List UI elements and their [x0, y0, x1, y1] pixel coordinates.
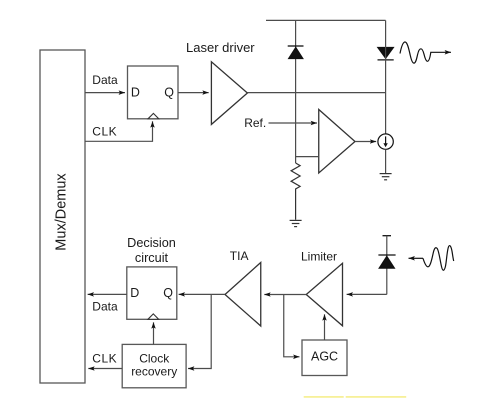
laser driver amplifier triangle — [211, 62, 247, 125]
decision circuit flip-flop FF2 — [127, 267, 177, 319]
wire Q output to laser driver — [178, 92, 209, 94]
wire right branch vertical — [385, 20, 387, 133]
svg-text:Data: Data — [92, 300, 118, 314]
wire CLK clock recovery to mux — [88, 368, 122, 370]
wire Data (mux to flip-flop) — [85, 92, 125, 94]
wire decision output Data to mux — [88, 293, 127, 295]
limiter amplifier triangle — [306, 263, 342, 326]
wire CLK (mux to flip-flop clock) — [85, 121, 153, 141]
wire photodiode branch — [386, 236, 388, 295]
ground (below resistor) — [290, 220, 302, 226]
wire op-amp output to current source — [355, 141, 376, 143]
svg-text:D: D — [130, 286, 139, 300]
AGC block — [302, 340, 347, 376]
highlight strip 1 (bottom) — [304, 396, 344, 398]
wire Ref input arrow — [269, 122, 318, 124]
wire tap to clock recovery — [188, 294, 211, 368]
svg-text:circuit: circuit — [135, 251, 169, 265]
svg-text:Laser driver: Laser driver — [186, 40, 255, 55]
svg-text:Decision: Decision — [127, 236, 176, 250]
svg-text:AGC: AGC — [311, 350, 338, 364]
svg-text:CLK: CLK — [92, 352, 117, 366]
highlight strip 2 (bottom) — [346, 396, 407, 398]
wire tap to AGC — [284, 295, 300, 357]
svg-text:Ref.: Ref. — [244, 116, 266, 130]
op-amp U1 (power control) — [319, 110, 355, 174]
svg-text:recovery: recovery — [131, 364, 177, 378]
wire feedback from branch to op-amp — [296, 156, 319, 158]
output light squiggle arrow — [400, 42, 451, 63]
wire AGC to limiter — [324, 314, 326, 340]
svg-text:CLK: CLK — [92, 124, 117, 138]
flip-flop FF1 (retiming D flip-flop) — [128, 66, 179, 119]
TIA amplifier triangle — [225, 263, 261, 327]
svg-text:D: D — [131, 85, 140, 99]
photodiode bias stub — [383, 235, 392, 237]
wire TIA to decision circuit — [179, 293, 225, 295]
svg-text:Limiter: Limiter — [301, 249, 337, 263]
ground (below current source) — [380, 174, 392, 180]
wire photodiode to limiter — [347, 293, 387, 295]
wire left branch (monitor diode / resistor branch) — [295, 20, 297, 163]
wire driver output to laser — [247, 92, 385, 94]
resistor R1 — [291, 163, 300, 220]
wire current source to ground — [385, 149, 387, 173]
svg-text:Q: Q — [164, 85, 174, 99]
current source I1 — [378, 134, 393, 149]
monitor diode D1 (pointing up) — [288, 46, 304, 59]
svg-text:Q: Q — [163, 286, 173, 300]
svg-text:TIA: TIA — [230, 249, 249, 263]
svg-text:Data: Data — [92, 73, 118, 87]
laser diode LD (pointing down) — [378, 47, 394, 60]
wire clock recovery to decision clock — [153, 322, 155, 344]
photodiode PD (pointing up) — [378, 255, 395, 268]
clock recovery block — [122, 344, 186, 387]
input light squiggle arrow — [409, 257, 424, 259]
svg-text:Mux/Demux: Mux/Demux — [53, 173, 69, 251]
wire limiter to TIA — [264, 294, 306, 296]
mux/demux block — [40, 50, 85, 383]
wire VCC top rail — [266, 19, 386, 21]
